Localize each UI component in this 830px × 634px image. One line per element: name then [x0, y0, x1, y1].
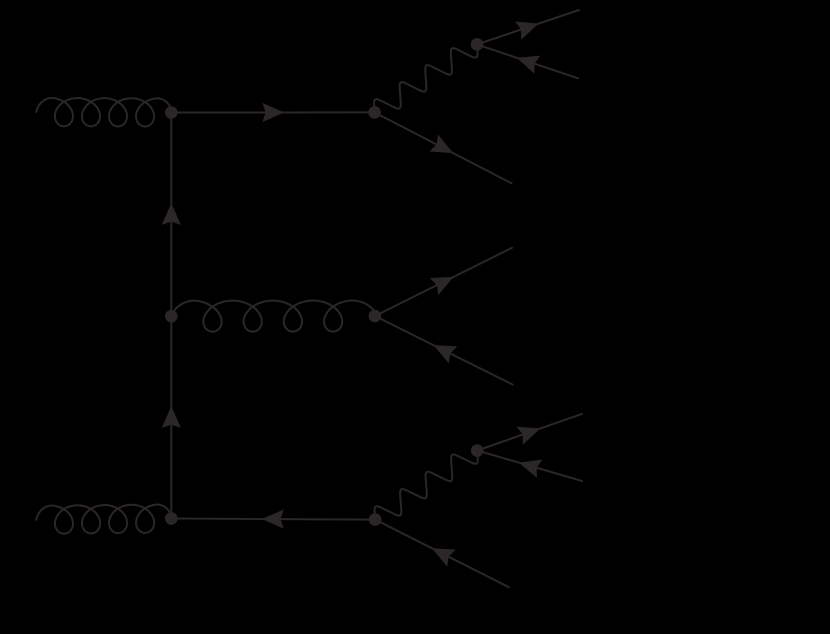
vertex V7 (antiquark-photon)	[369, 513, 382, 526]
arrow on antiquark V5 (toward vertex)	[434, 345, 458, 363]
photon from V2 to V3	[374, 44, 477, 112]
outgoing quark from V2 (down-right)	[375, 112, 512, 183]
arrow on outgoing quark V5	[430, 277, 454, 295]
arrow on quark V1-V2 (rightward)	[262, 103, 284, 122]
quark propagator V4 to V1 (vertical upper)	[170, 113, 172, 317]
vertex V5 (gluon-quark pair)	[369, 310, 382, 323]
vertex V4 (quark-gluon)	[165, 310, 178, 323]
antiquark line V7 to V6	[171, 519, 375, 520]
arrow on outgoing lepton V8	[517, 427, 541, 445]
vertex V8 (photon-lepton pair lower)	[471, 444, 484, 457]
incoming gluon g1 (top left)	[36, 98, 171, 127]
vertex V6 (g3-quark)	[165, 512, 178, 525]
arrow on outgoing lepton V3	[515, 21, 539, 39]
incoming antiquark to V5 (from lower right)	[375, 316, 513, 385]
arrow on antilepton V3 (toward vertex)	[517, 56, 541, 74]
outgoing quark from V5 (up-right)	[375, 248, 512, 316]
incoming antiquark to V7 (from lower right)	[375, 520, 509, 588]
incoming antilepton to V3	[477, 44, 578, 78]
arrow on vertical quark lower (upward)	[162, 406, 181, 428]
arrow on vertical quark upper (upward)	[162, 203, 181, 225]
vertex V2 (quark-photon)	[368, 106, 381, 119]
vertex V3 (photon-lepton pair)	[471, 38, 484, 51]
outgoing lepton from V3	[477, 10, 579, 44]
incoming gluon g3 (bottom left)	[36, 505, 171, 534]
arrow on antilepton V8 (toward vertex)	[519, 459, 543, 477]
vertex V1 (g1-quark)	[165, 106, 178, 119]
outgoing lepton from V8	[477, 414, 582, 451]
arrow on quark from V2	[429, 134, 453, 153]
incoming antilepton to V8	[477, 451, 582, 482]
quark line V1 to V2	[171, 111, 374, 113]
photon from V7 to V8	[375, 451, 478, 520]
gluon from V4 to V5	[171, 301, 374, 332]
quark propagator V6 to V4 (vertical lower)	[170, 316, 172, 518]
arrow on antiquark V7-V6 (leftward)	[262, 510, 284, 529]
arrow on antiquark V7 (toward vertex)	[432, 548, 456, 566]
